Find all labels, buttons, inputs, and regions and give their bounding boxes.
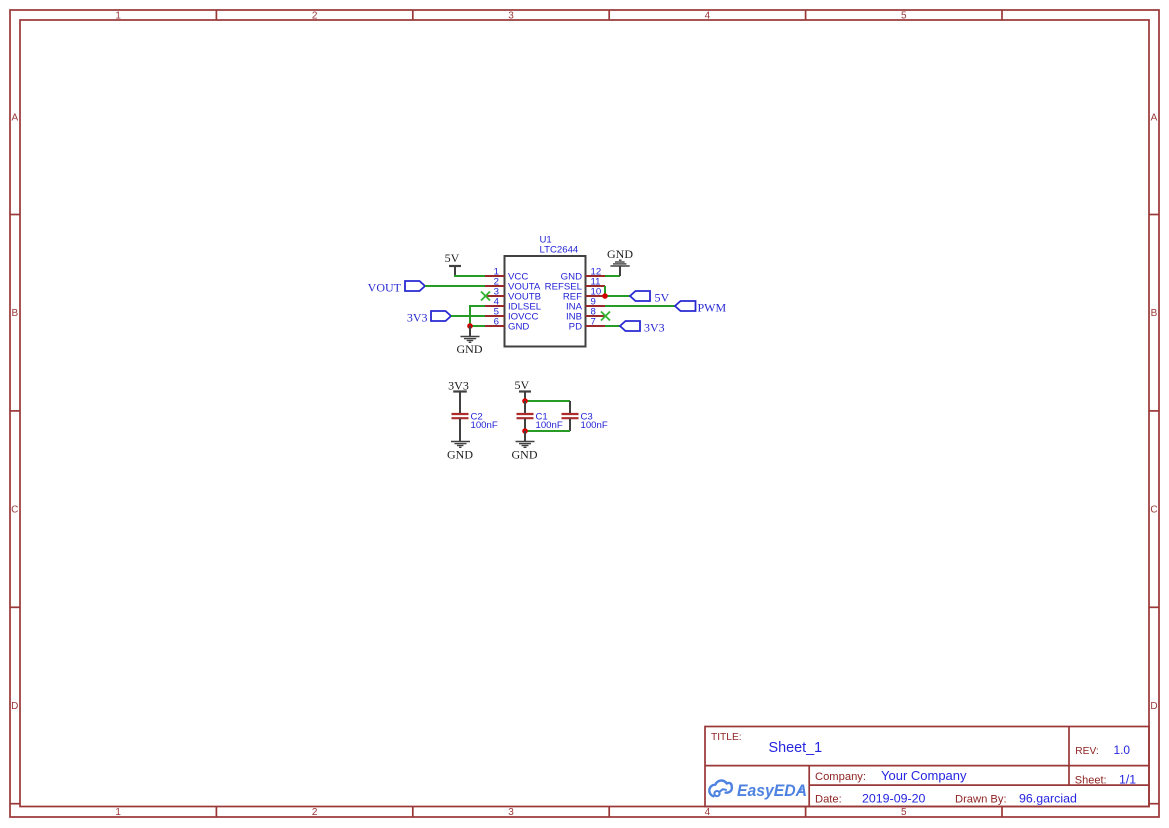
svg-text:Date:: Date: bbox=[815, 794, 842, 806]
svg-text:A: A bbox=[11, 113, 18, 124]
svg-text:2: 2 bbox=[312, 807, 318, 818]
svg-text:2019-09-20: 2019-09-20 bbox=[862, 792, 925, 806]
pin 5 IOVCC bbox=[485, 306, 538, 322]
svg-text:7: 7 bbox=[591, 316, 596, 327]
svg-text:5V: 5V bbox=[655, 290, 670, 304]
wire pin 12 to ground bbox=[605, 275, 620, 277]
svg-text:B: B bbox=[1151, 308, 1158, 319]
pin 10 REF bbox=[563, 286, 605, 302]
wire VOUT to pin 2 bbox=[425, 285, 485, 287]
svg-text:Company:: Company: bbox=[815, 771, 866, 783]
svg-text:PD: PD bbox=[569, 322, 582, 333]
junction dot (REF / REFSEL) bbox=[602, 293, 608, 299]
junction dot (C1 top) bbox=[522, 398, 528, 404]
svg-text:C: C bbox=[11, 505, 18, 516]
pin 7 PD bbox=[569, 316, 605, 332]
svg-text:1.0: 1.0 bbox=[1114, 743, 1131, 757]
pin 3 VOUTB bbox=[485, 286, 541, 302]
svg-text:TITLE:: TITLE: bbox=[711, 732, 742, 743]
svg-text:3: 3 bbox=[508, 11, 514, 22]
svg-text:Sheet:: Sheet: bbox=[1075, 774, 1107, 786]
svg-text:PWM: PWM bbox=[698, 300, 727, 314]
wire pin 7 to 3V3 flag bbox=[605, 325, 620, 327]
wire pin 4 to ground node bbox=[470, 306, 485, 326]
power flag 5V (to pin 1) bbox=[445, 251, 461, 276]
svg-text:Drawn By:: Drawn By: bbox=[955, 794, 1007, 806]
svg-text:VOUT: VOUT bbox=[368, 280, 402, 294]
capacitor C3 bbox=[562, 401, 608, 431]
wire 5V to pin 1 bbox=[454, 275, 485, 277]
svg-text:3V3: 3V3 bbox=[407, 310, 428, 324]
svg-text:C: C bbox=[1150, 505, 1157, 516]
wire pin 9 to PWM flag bbox=[605, 305, 675, 307]
svg-text:GND: GND bbox=[447, 448, 473, 462]
title block bbox=[705, 727, 1149, 807]
ground symbol GND (below pin 6) bbox=[457, 326, 483, 356]
svg-text:EasyEDA: EasyEDA bbox=[737, 781, 807, 800]
ground symbol GND (below C2) bbox=[447, 442, 473, 462]
svg-text:GND: GND bbox=[457, 342, 483, 356]
svg-text:3: 3 bbox=[508, 807, 514, 818]
net flag PWM bbox=[675, 300, 727, 314]
svg-text:6: 6 bbox=[494, 316, 499, 327]
wire pin 6 to ground node bbox=[470, 325, 485, 327]
svg-text:Sheet_1: Sheet_1 bbox=[769, 740, 823, 756]
wire REF node to 5V flag bbox=[605, 295, 630, 297]
pin 4 IDLSEL bbox=[485, 296, 542, 312]
pin 2 VOUTA bbox=[485, 276, 541, 292]
net flag 5V (right) bbox=[630, 290, 670, 304]
ground symbol GND (below C1) bbox=[512, 431, 538, 462]
svg-text:96.garciad: 96.garciad bbox=[1019, 792, 1077, 806]
svg-text:5V: 5V bbox=[514, 378, 529, 392]
net flag VOUT bbox=[368, 280, 425, 294]
svg-text:5: 5 bbox=[901, 11, 907, 22]
svg-text:D: D bbox=[1150, 701, 1157, 712]
capacitor C2 bbox=[452, 392, 498, 442]
svg-text:100nF: 100nF bbox=[536, 420, 563, 431]
svg-text:GND: GND bbox=[508, 322, 529, 333]
wire 3V3 to pin 5 bbox=[451, 315, 485, 317]
svg-text:3V3: 3V3 bbox=[448, 378, 469, 392]
power flag 3V3 (above C2) bbox=[448, 378, 469, 392]
power flag 5V (above C1) bbox=[514, 378, 531, 401]
wire C1 top to C3 top bbox=[525, 400, 570, 402]
pin 8 INB bbox=[566, 306, 605, 322]
wire C1 bottom to C3 bottom bbox=[525, 430, 570, 432]
EasyEDA logo bbox=[709, 780, 807, 799]
ground symbol GND (top right, flipped) bbox=[607, 247, 633, 276]
svg-text:5V: 5V bbox=[445, 251, 460, 265]
no-connect X pin 3 bbox=[481, 292, 490, 301]
svg-text:LTC2644: LTC2644 bbox=[540, 245, 579, 256]
no-connect X pin 8 bbox=[601, 312, 610, 321]
svg-text:100nF: 100nF bbox=[581, 420, 608, 431]
wire REFSEL (pin 11) down to REF node bbox=[604, 286, 606, 296]
pin 12 GND bbox=[561, 266, 605, 282]
net flag 3V3 (right) bbox=[620, 320, 665, 334]
svg-text:D: D bbox=[11, 701, 18, 712]
capacitor C1 bbox=[517, 401, 563, 431]
junction dot (pins 4,6 ground) bbox=[467, 323, 473, 329]
net flag 3V3 (left) bbox=[407, 310, 451, 324]
pin 9 INA bbox=[566, 296, 605, 312]
svg-text:A: A bbox=[1151, 113, 1158, 124]
svg-text:5: 5 bbox=[901, 807, 907, 818]
pin 11 REFSEL bbox=[545, 276, 605, 292]
svg-text:1: 1 bbox=[115, 807, 121, 818]
svg-text:3V3: 3V3 bbox=[644, 320, 665, 334]
IC U1 LTC2644 body bbox=[505, 235, 586, 347]
svg-text:Your Company: Your Company bbox=[881, 768, 967, 783]
svg-text:GND: GND bbox=[607, 247, 633, 261]
svg-text:B: B bbox=[11, 308, 18, 319]
svg-text:4: 4 bbox=[705, 11, 711, 22]
svg-text:1: 1 bbox=[115, 11, 121, 22]
svg-text:100nF: 100nF bbox=[471, 420, 498, 431]
svg-text:4: 4 bbox=[705, 807, 711, 818]
svg-text:1/1: 1/1 bbox=[1119, 772, 1136, 786]
pin 1 VCC bbox=[485, 266, 528, 282]
svg-text:REV:: REV: bbox=[1075, 746, 1098, 757]
svg-text:GND: GND bbox=[512, 448, 538, 462]
junction dot (C1 bottom) bbox=[522, 428, 528, 434]
pin 6 GND bbox=[485, 316, 529, 332]
svg-text:2: 2 bbox=[312, 11, 318, 22]
